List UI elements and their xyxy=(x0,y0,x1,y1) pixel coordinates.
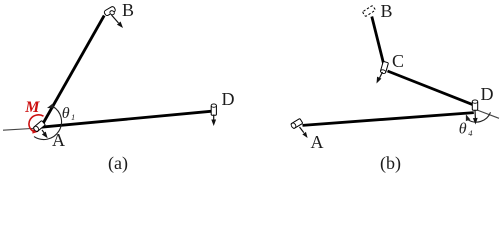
joint B pin dashed xyxy=(362,5,375,16)
svg-text:A: A xyxy=(311,132,324,152)
link BC xyxy=(372,17,384,65)
velocity arrow at D xyxy=(213,115,215,121)
svg-text:θ: θ xyxy=(459,121,467,138)
svg-text:B: B xyxy=(122,0,134,20)
svg-text:D: D xyxy=(222,89,235,109)
angle theta4 arc xyxy=(467,112,490,122)
joint B pin xyxy=(104,6,116,16)
svg-text:A: A xyxy=(52,130,65,150)
link CD xyxy=(388,71,474,105)
svg-text:D: D xyxy=(481,84,494,104)
joint C pin xyxy=(380,61,388,74)
velocity arrow at D xyxy=(474,111,476,120)
svg-text:(b): (b) xyxy=(380,153,401,174)
link AB xyxy=(41,16,104,127)
svg-text:4: 4 xyxy=(468,128,473,138)
velocity arrow at A xyxy=(300,127,304,133)
joint A pin xyxy=(290,118,302,129)
velocity arrow at B xyxy=(112,15,119,23)
velocity arrow at A xyxy=(42,130,45,134)
angle theta1 arrowhead xyxy=(46,104,54,111)
svg-text:1: 1 xyxy=(71,112,75,122)
joint D pin xyxy=(472,100,477,110)
velocity arrow at C xyxy=(380,72,383,78)
svg-text:B: B xyxy=(381,1,393,21)
svg-text:θ: θ xyxy=(62,105,70,122)
CD extension thin line xyxy=(477,110,499,118)
link AD xyxy=(41,111,212,127)
svg-text:(a): (a) xyxy=(108,153,128,174)
svg-text:M: M xyxy=(24,99,40,116)
ground reference line left of A xyxy=(3,128,40,130)
svg-text:C: C xyxy=(392,51,404,71)
angle theta4 arrowhead xyxy=(464,113,471,121)
joint D pin xyxy=(211,104,216,115)
moment M red arc xyxy=(29,115,44,132)
joint A pin xyxy=(33,121,45,133)
moment M red arrowhead xyxy=(32,129,38,134)
angle theta1 arc xyxy=(34,107,62,140)
link DA xyxy=(303,113,474,126)
